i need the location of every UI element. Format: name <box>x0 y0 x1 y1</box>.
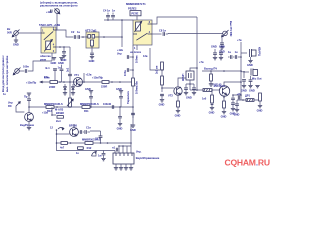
capacitor C15 <box>186 84 196 99</box>
capacitor C24 gnd <box>116 87 123 107</box>
node A <box>82 36 84 38</box>
svg-text:4к7: 4к7 <box>60 146 65 150</box>
output rail <box>241 99 260 101</box>
svg-text:Вых ПЧ 50R: Вых ПЧ 50R <box>229 21 233 37</box>
svg-text:Кнд/Прием: Кнд/Прием <box>20 123 34 127</box>
capacitor C1b on K1 line <box>65 47 72 82</box>
wire to Q2 base <box>162 87 174 89</box>
svg-text:220R: 220R <box>101 85 107 89</box>
svg-text:1м: 1м <box>98 153 101 157</box>
svg-text:С1н: С1н <box>86 126 91 130</box>
wire K2 out <box>152 33 162 35</box>
wire X2 to K1 <box>56 13 57 30</box>
svg-text:Переключ: Переключ <box>126 91 130 104</box>
svg-text:12в: 12в <box>44 75 49 79</box>
capacitor C27 pair <box>78 126 91 134</box>
wire K1 pin2 down <box>51 53 53 61</box>
relay K1 <box>39 23 60 53</box>
svg-text:GND: GND <box>175 113 181 117</box>
inductor L2 <box>245 93 254 101</box>
capacitor C23 gnd <box>85 87 93 108</box>
wire long vertical <box>196 17 198 90</box>
svg-text:расположена на этом фото: расположена на этом фото <box>40 4 78 8</box>
gate network arrow <box>8 101 24 112</box>
svg-text:вых. сигнала при настройке: вых. сигнала при настройке <box>5 55 9 92</box>
svg-text:+12в: +12в <box>42 111 48 115</box>
capacitor C10 <box>127 55 138 63</box>
node D <box>83 81 85 83</box>
svg-text:2к2 см: 2к2 см <box>155 66 159 74</box>
svg-text:GND: GND <box>116 87 122 91</box>
capacitor C12 <box>131 106 135 118</box>
svg-text:1н: 1н <box>112 8 115 12</box>
resistor R8 MMBR <box>44 102 63 113</box>
svg-text:R11: R11 <box>84 109 89 113</box>
svg-text:РЕЛЕ: РЕЛЕ <box>131 12 138 16</box>
svg-text:М-АЛ3: М-АЛ3 <box>55 108 64 112</box>
wire K2 coil pin down <box>130 45 142 54</box>
svg-text:GND: GND <box>219 45 225 49</box>
svg-text:GND: GND <box>241 89 247 93</box>
svg-text:R12: R12 <box>87 146 92 150</box>
svg-text:1н: 1н <box>235 50 238 54</box>
svg-text:1н: 1н <box>228 50 231 54</box>
emitter network Q2 <box>175 95 181 117</box>
svg-text:MMBD2837LT1: MMBD2837LT1 <box>126 2 146 6</box>
svg-text:100пФ: 100пФ <box>103 102 112 106</box>
filter unit Z1 <box>181 60 204 90</box>
wire verticals to U2 <box>108 124 132 153</box>
wire ATT out <box>99 36 122 38</box>
emitter Q5 <box>221 95 227 118</box>
svg-text:100мк: 100мк <box>135 55 139 63</box>
transistor Q1 <box>74 73 83 86</box>
capacitor C17 C18 series <box>228 50 241 59</box>
capacitor C19 <box>242 80 246 88</box>
svg-text:RX: RX <box>8 104 12 108</box>
transistor Q6 switch <box>20 107 34 130</box>
svg-text:BF998: BF998 <box>69 124 77 128</box>
wire node B down stub <box>121 37 123 47</box>
microphone M1 <box>241 47 262 67</box>
node B <box>121 36 123 38</box>
wire K1 pin4 to node <box>56 46 70 48</box>
diode VD1 to ground <box>63 84 67 95</box>
wire gate feed <box>57 133 70 135</box>
wire X1 to K1 <box>18 32 41 34</box>
inductor L1 <box>203 89 219 92</box>
connector X1 RF input <box>7 27 20 37</box>
svg-text:12в: 12в <box>143 54 148 58</box>
capacitor C28 <box>90 131 102 143</box>
svg-text:VT2: VT2 <box>168 94 173 98</box>
svg-text:Выход ПЧ: Выход ПЧ <box>204 66 217 70</box>
connector X4 control <box>13 68 20 75</box>
svg-text:1к0: 1к0 <box>202 96 207 100</box>
connector X2 +12V <box>46 9 60 15</box>
svg-text:ФП2П: ФП2П <box>181 73 185 81</box>
svg-text:на плате: на плате <box>130 51 142 54</box>
wire K2 aux <box>143 48 160 70</box>
svg-text:GND: GND <box>234 112 240 116</box>
svg-text:C8 1н: C8 1н <box>159 28 166 32</box>
svg-text:реле: реле <box>40 58 47 61</box>
capacitor C22 to ground top <box>24 93 31 107</box>
svg-text:GND: GND <box>159 103 165 107</box>
decoupling cluster GND pair <box>211 45 225 60</box>
svg-text:РЕЛЕ2: РЕЛЕ2 <box>128 7 137 11</box>
resistor R4 <box>126 78 139 104</box>
resistor R12a <box>56 142 85 150</box>
svg-text:2к2: 2к2 <box>65 67 69 72</box>
connector X3 IF out <box>222 21 233 37</box>
svg-text:Вход для контроля уровня с: Вход для контроля уровня с <box>1 55 5 92</box>
IF output bus <box>202 66 241 71</box>
svg-text:1н: 1н <box>77 30 80 34</box>
capacitor C2 <box>77 35 86 39</box>
svg-text:GND: GND <box>117 126 123 130</box>
svg-text:GND: GND <box>89 59 95 63</box>
svg-text:GND: GND <box>85 87 91 91</box>
svg-text:ВF998: ВF998 <box>56 111 64 115</box>
svg-text:Упр: Упр <box>8 101 13 105</box>
capacitor C7b <box>44 66 61 83</box>
transistor Q5 <box>219 82 232 96</box>
IC U2 <box>113 153 134 170</box>
wire K1 pin3 to node <box>56 30 73 37</box>
resistor R7 <box>257 93 263 112</box>
svg-text:Пр: Пр <box>24 94 28 98</box>
mixer stage resistor R5 <box>155 62 164 92</box>
svg-text:Упр.: Упр. <box>136 149 142 153</box>
capacitor C4 <box>103 8 110 20</box>
capacitor C20 <box>241 76 260 93</box>
control rail <box>29 106 70 108</box>
svg-text:50R: 50R <box>7 30 12 34</box>
supply bus vertical <box>132 45 134 125</box>
ground X3 <box>219 38 225 53</box>
svg-text:GND: GND <box>257 108 263 112</box>
svg-text:C2: C2 <box>71 30 75 34</box>
resistor R2 220R <box>49 81 57 89</box>
capacitor C31 <box>237 92 242 99</box>
resistor R6 <box>202 89 214 114</box>
svg-text:-2SC/24-0: -2SC/24-0 <box>213 84 225 88</box>
capacitor C16 <box>230 82 236 115</box>
svg-text:GND: GND <box>13 43 19 47</box>
svg-text:ДР1: ДР1 <box>245 93 251 97</box>
attenuator U1 ATT-7dB <box>85 28 99 48</box>
wire up from node D <box>83 73 85 82</box>
ground ATT <box>89 48 95 63</box>
connector arrow TP <box>92 151 97 157</box>
svg-text:GND: GND <box>58 61 64 65</box>
svg-text:+12в: +12в <box>117 48 123 52</box>
resistor R9 <box>51 107 64 123</box>
capacitor C26 gnd <box>117 107 123 130</box>
svg-text:2шт: 2шт <box>56 119 62 123</box>
svg-text:GND: GND <box>221 114 227 118</box>
resistor R15 <box>209 71 213 86</box>
svg-text:100н: 100н <box>123 70 127 76</box>
svg-text:+12в/Пф: +12в/Пф <box>92 75 104 79</box>
svg-text:100н: 100н <box>23 65 29 69</box>
node C <box>59 81 61 83</box>
svg-text:+12в: +12в <box>46 10 52 14</box>
svg-text:C4 1н: C4 1н <box>103 8 110 12</box>
capacitor C25 series <box>103 102 121 109</box>
note rotated left <box>1 55 9 92</box>
svg-text:КВАРЦ: КВАРЦ <box>258 47 262 56</box>
svg-text:Упр: Упр <box>117 51 122 55</box>
trimmer R10 <box>67 82 133 108</box>
capacitor C29 <box>98 151 106 161</box>
svg-text:GND: GND <box>247 63 253 67</box>
svg-text:+7в: +7в <box>237 38 242 42</box>
ground bus <box>130 125 136 132</box>
svg-text:GND: GND <box>211 45 217 49</box>
svg-text:GND: GND <box>209 110 215 114</box>
capacitor C21 <box>234 100 241 116</box>
relay K2 <box>126 2 152 50</box>
capacitor C6 <box>19 61 52 73</box>
svg-text:CQHAM.RU: CQHAM.RU <box>225 157 270 167</box>
svg-text:+12в: +12в <box>86 72 92 76</box>
svg-text:Вх: Вх <box>7 27 11 31</box>
svg-text:Звук/Управление: Звук/Управление <box>136 156 160 160</box>
supply rail +12V <box>26 75 132 84</box>
svg-text:Mic Out: Mic Out <box>252 77 262 81</box>
svg-text:GND: GND <box>51 61 57 65</box>
svg-text:+7в: +7в <box>199 60 204 64</box>
ground pair <box>51 58 64 82</box>
capacitor C5 <box>111 8 115 20</box>
resistor R3 <box>101 81 121 89</box>
capacitor C7 to ground <box>61 47 67 62</box>
resistor R14 <box>76 147 84 155</box>
ground below X1 <box>13 35 19 46</box>
diode VD2 to ground <box>71 84 75 95</box>
wire K2 NC to bus <box>152 17 197 24</box>
svg-text:GND: GND <box>186 95 192 99</box>
svg-text:100мк/35в: 100мк/35в <box>135 81 139 94</box>
microphone M2 <box>241 69 262 81</box>
capacitor C1 <box>71 30 80 39</box>
resistor R11 <box>80 102 99 113</box>
transistor Q2 <box>168 78 186 98</box>
svg-text:1н: 1н <box>58 66 61 70</box>
svg-text:+12в/Пр: +12в/Пр <box>26 81 37 85</box>
capacitor C11 <box>123 68 134 76</box>
transistor Q7 BF998 <box>69 124 78 137</box>
wire top to K2 <box>104 19 133 21</box>
note text <box>40 0 78 7</box>
svg-text:220R: 220R <box>49 85 55 89</box>
supply bus right <box>237 38 242 100</box>
capacitor C14 <box>184 84 190 95</box>
wire loop <box>57 130 116 151</box>
wire Q5 collector to bus <box>232 82 241 95</box>
resistor R12 <box>82 138 108 150</box>
svg-text:ТАКС-НР1 +12В: ТАКС-НР1 +12В <box>39 23 60 27</box>
svg-text:В-1: В-1 <box>46 66 51 70</box>
svg-text:GND: GND <box>249 89 255 93</box>
capacitor C30 <box>112 146 118 152</box>
svg-text:VT1: VT1 <box>74 73 79 77</box>
capacitor C13 to ground <box>159 94 165 106</box>
wire filter to amp <box>190 89 203 91</box>
capacitor C8 <box>159 28 223 35</box>
node E glyphs <box>50 126 64 131</box>
wire node B up to K2 <box>121 20 123 37</box>
